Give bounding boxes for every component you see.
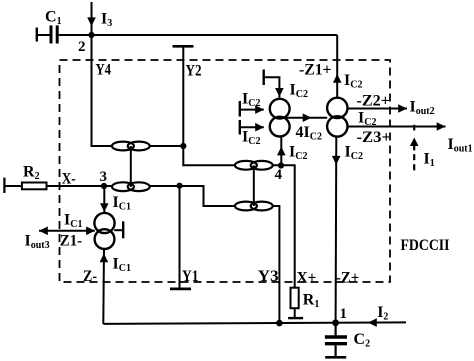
svg-text:Y3: Y3 — [258, 268, 279, 285]
wire top horizontal from C1 to corner — [59, 34, 338, 36]
output arrow Iout1 — [347, 122, 445, 131]
current mirror E3 (upper-right ellipse pair) — [235, 161, 273, 170]
svg-text:Y1: Y1 — [182, 268, 199, 285]
node 1 junction dot — [332, 319, 339, 326]
svg-text:2: 2 — [78, 39, 86, 55]
svg-text:Iout3: Iout3 — [25, 233, 50, 252]
svg-text:IC2: IC2 — [344, 72, 362, 91]
wire E4 right to Y3 down — [273, 206, 280, 323]
capacitor C2 — [325, 323, 347, 358]
svg-text:C1: C1 — [45, 9, 62, 28]
svg-text:-Z1+: -Z1+ — [299, 61, 332, 78]
terminal+arrow IC2 into M2 upper-left — [240, 101, 264, 117]
svg-text:-Z+: -Z+ — [336, 269, 360, 286]
node 4 junction dot — [278, 162, 284, 168]
current mirror M3 (stacked circles, outputs) — [327, 98, 347, 137]
junction dot at Y2/E1 — [180, 143, 186, 149]
resistor R2 — [4, 178, 46, 193]
svg-text:Y4: Y4 — [96, 62, 112, 79]
4IC2 arrow from M2 to M3 — [280, 113, 328, 122]
svg-text:Iout1: Iout1 — [448, 136, 473, 155]
svg-text:IC2: IC2 — [345, 144, 363, 163]
svg-text:IC2: IC2 — [289, 144, 307, 163]
wire Z- from M1 down to bottom rail — [102, 249, 105, 324]
svg-text:IC2: IC2 — [358, 110, 376, 129]
dashed current arrow I1 — [410, 125, 419, 171]
svg-text:IC1: IC1 — [64, 211, 82, 230]
Z1- output arrow to Iout3 — [39, 227, 95, 236]
svg-text:Z-: Z- — [83, 268, 97, 285]
junction dot Y1 — [176, 183, 182, 189]
terminal Y2 — [173, 46, 194, 146]
junction dot Y3 on bottom rail — [276, 320, 283, 327]
current arrow IC2 up from node 4 — [277, 137, 286, 165]
node 4 wires — [273, 165, 295, 287]
dashed FDCCII box — [60, 60, 391, 282]
terminal+arrow IC2 into M2 lower-left — [240, 120, 264, 135]
svg-text:FDCCII: FDCCII — [401, 237, 450, 254]
wire -Z1+ vertical with IC2 up arrow — [333, 35, 342, 98]
svg-text:I3: I3 — [101, 10, 112, 29]
svg-text:1: 1 — [340, 306, 348, 322]
svg-text:4: 4 — [275, 167, 283, 183]
current mirror M1 (stacked circles at X-) — [94, 213, 114, 249]
wire Y1 down — [179, 186, 181, 288]
wire E2 right to corner down to E4 — [150, 186, 235, 206]
current mirror M2 (stacked circles, left of 4IC2) — [270, 99, 290, 137]
svg-text:IC2: IC2 — [290, 82, 308, 101]
current arrow IC1 from node 3 down — [100, 186, 109, 213]
svg-text:-Z2+: -Z2+ — [357, 93, 391, 110]
current arrow IC1 up — [100, 253, 109, 262]
bottom rail wire — [103, 322, 406, 324]
wire Y4 from node 2 down to mirror E1 — [92, 35, 113, 146]
terminal right of M1 — [114, 221, 123, 238]
svg-text:Z1-: Z1- — [60, 233, 82, 250]
svg-text:3: 3 — [100, 169, 108, 185]
svg-text:IC2: IC2 — [242, 129, 260, 148]
svg-text:R2: R2 — [23, 164, 40, 183]
svg-text:X+: X+ — [297, 269, 317, 286]
wire between E3 and E4 — [253, 165, 255, 206]
capacitor C1 — [37, 25, 57, 43]
output arrow Iout2 — [347, 104, 407, 113]
svg-text:Y2: Y2 — [186, 62, 202, 79]
wire E1 right to Y2 node — [150, 145, 184, 147]
svg-text:C2: C2 — [354, 331, 371, 350]
svg-text:I1: I1 — [424, 151, 435, 170]
current arrow I2 on bottom rail — [368, 318, 377, 327]
current arrow I3 — [87, 2, 96, 35]
node 2 junction dot — [88, 32, 94, 38]
ground bar Y1 — [170, 287, 191, 290]
svg-text:IC1: IC1 — [113, 194, 131, 213]
svg-text:IC1: IC1 — [113, 256, 131, 275]
current mirror E4 (lower-right ellipse pair) — [235, 202, 273, 211]
wire X- row — [46, 185, 112, 187]
svg-text:R1: R1 — [303, 292, 320, 311]
wire -Z+ from M3 down to node 1 with IC2 down arrow — [332, 137, 341, 323]
svg-text:I2: I2 — [377, 304, 388, 323]
current mirror E2 (lower-left ellipse pair) — [112, 182, 150, 191]
wire between E1 and E2 — [130, 146, 132, 187]
resistor R1 — [288, 288, 303, 318]
svg-text:Iout2: Iout2 — [410, 99, 435, 118]
node 3 junction dot — [101, 183, 107, 189]
svg-text:-Z3+: -Z3+ — [357, 129, 392, 146]
wire from Y2 node to mirror E3 — [183, 146, 235, 165]
svg-text:IC2: IC2 — [242, 91, 260, 110]
svg-text:4IC2: 4IC2 — [296, 124, 322, 143]
terminal+arrow IC2 into top of M2 — [264, 70, 284, 98]
current mirror E1 (upper-left ellipse pair) — [112, 142, 150, 151]
